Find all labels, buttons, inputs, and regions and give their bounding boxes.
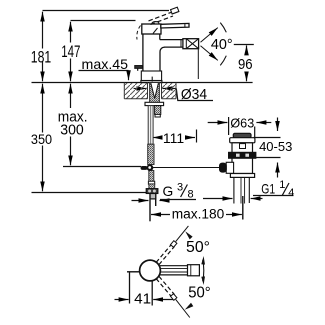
svg-text:max.45: max.45 <box>82 56 129 72</box>
handle block <box>142 24 161 34</box>
dimension 40-53 <box>277 118 279 132</box>
extension line max.300 bottom <box>63 166 141 168</box>
svg-text:40-53: 40-53 <box>259 139 292 154</box>
hose ferrule above nut <box>148 181 154 184</box>
drain bottom plate <box>230 174 254 178</box>
svg-text:300: 300 <box>60 122 84 138</box>
svg-text:50°: 50° <box>186 239 210 256</box>
hose nut G3/8 <box>146 189 158 194</box>
threaded shank in deck <box>150 83 160 103</box>
drain ball joint clevis <box>226 162 233 173</box>
drain plug cap <box>233 133 251 138</box>
dashed swing arc left of block <box>137 26 141 40</box>
angle arc arrowhead lower <box>185 303 194 310</box>
hose collar below ferrule <box>149 184 155 189</box>
svg-text:G1: G1 <box>261 182 275 197</box>
pop-up rod horizontal <box>153 167 220 169</box>
lever rod end cap <box>184 24 186 28</box>
dimension 111 horizontal <box>153 137 161 139</box>
drain overflow window <box>240 144 246 149</box>
spray arc upper stub <box>220 23 226 33</box>
base collar <box>141 71 161 81</box>
extension line 350 bottom <box>32 192 147 194</box>
arrowhead bottom of swing arc <box>201 276 205 285</box>
lift rod stub <box>137 68 139 71</box>
dimension 147 vertical line <box>70 22 72 43</box>
extension line below aerator mouth <box>197 49 199 79</box>
fraction slash G3/8 <box>181 185 188 198</box>
dimension 41 <box>115 299 129 301</box>
extension line 96 top <box>234 44 254 46</box>
hose braided below junction <box>149 171 154 182</box>
lever rod solid <box>161 23 189 28</box>
deck outline <box>124 83 176 99</box>
deck surface reference line <box>32 82 253 84</box>
drain body lower <box>232 158 253 173</box>
aerator box <box>183 39 199 49</box>
dashed lever cap upper <box>170 241 176 248</box>
drain clamp knob <box>220 163 227 172</box>
dashed lever cap lower <box>170 294 176 301</box>
spray angle 40 degrees <box>201 23 227 66</box>
svg-text:8: 8 <box>188 189 194 201</box>
svg-text:50°: 50° <box>188 285 211 302</box>
svg-text:3: 3 <box>177 182 183 194</box>
spray arc lower stub <box>220 56 226 66</box>
reference line top of raised lever (181) <box>43 10 170 12</box>
dimension 181 vertical line <box>42 12 44 49</box>
washer under deck <box>145 102 164 105</box>
top view: handle body circle <box>127 260 199 281</box>
top view left tick <box>127 271 140 273</box>
top view lever bar <box>160 265 188 267</box>
extension lines Ø63 <box>228 117 230 135</box>
extension line 41 left <box>129 273 131 304</box>
deck hole edges <box>148 83 162 99</box>
svg-text:41: 41 <box>134 291 151 308</box>
extension line max.180 left <box>149 194 151 222</box>
svg-text:181: 181 <box>31 47 51 66</box>
supply hose braided section <box>148 144 154 164</box>
leader Ø34 <box>176 89 213 101</box>
underline G1 1/4 <box>253 195 294 197</box>
faucet body right wall upper <box>159 34 161 40</box>
svg-text:G: G <box>163 184 174 199</box>
deck hatch left <box>124 83 147 99</box>
spout joint line <box>180 40 182 48</box>
underline G3/8 <box>160 199 196 201</box>
spray ray upper <box>201 28 218 43</box>
lever rod dashed raised position <box>149 12 174 24</box>
faucet body right wall lower with spout fillet <box>160 47 165 71</box>
dimension max.300 vertical line <box>70 84 72 108</box>
dimension G1 1/4 arrows <box>203 198 233 200</box>
arrowhead top of swing arc <box>201 256 205 265</box>
svg-text:max.180: max.180 <box>172 206 225 222</box>
svg-text:1: 1 <box>279 179 285 191</box>
dimension Ø34 arrows <box>134 88 147 90</box>
extension line max.180 right / drain axis <box>242 196 244 220</box>
top view lever cap <box>188 265 200 276</box>
mounting deck <box>124 83 176 99</box>
faucet body left wall <box>142 34 144 71</box>
svg-text:Ø34: Ø34 <box>181 87 207 103</box>
deck hatch right <box>162 83 177 99</box>
pop-up drain assembly <box>220 133 256 203</box>
dimension G3/8 arrows <box>132 200 149 202</box>
shank cone <box>151 83 159 99</box>
handle attachment bump <box>152 22 160 24</box>
angle arc arrowhead upper <box>185 231 192 239</box>
dimension Ø63 <box>208 122 228 124</box>
dimension max.45 leader <box>79 70 129 72</box>
extension line 111 right <box>196 130 198 143</box>
fraction slash G1 1/4 <box>282 183 289 195</box>
faucet side view <box>135 7 199 82</box>
drain body upper <box>232 143 253 154</box>
mounting stud nut <box>155 106 161 117</box>
angle leg lower <box>176 299 190 317</box>
junction clamp screw <box>141 166 148 170</box>
drain flange <box>230 138 255 143</box>
supply hose tube upper <box>148 106 155 185</box>
lift rod knob bar <box>135 66 143 69</box>
hose nipple G3/8 <box>150 194 156 199</box>
tailpipe <box>234 177 249 203</box>
pop-up rod inside collar <box>151 77 153 82</box>
dimension 96 vertical <box>246 45 248 53</box>
top view lever dashed at +50 <box>156 226 204 318</box>
svg-text:Ø63: Ø63 <box>230 116 254 130</box>
drain locknut <box>229 152 256 158</box>
extension line 41 right <box>151 281 153 306</box>
spray ray lower <box>201 46 218 61</box>
dimension 350 vertical line <box>42 84 44 133</box>
top view lever dashed at -50 <box>156 276 174 296</box>
extension line G3/8 right <box>155 194 157 207</box>
svg-text:40°: 40° <box>211 37 233 53</box>
svg-text:4: 4 <box>288 187 294 199</box>
aerator mousseur X <box>186 39 198 49</box>
dashed lever tip cap <box>171 7 179 14</box>
spout tube <box>160 39 183 41</box>
svg-text:147: 147 <box>61 42 80 61</box>
pop-up rod junction ball <box>141 164 154 171</box>
handle block notch <box>153 28 158 34</box>
svg-text:96: 96 <box>238 56 253 73</box>
reference line top of handle block (147) <box>71 20 136 22</box>
swing arc with arrows <box>203 260 204 281</box>
svg-text:111: 111 <box>163 130 184 146</box>
angle leg upper <box>176 226 189 242</box>
dimension max.180 <box>151 214 170 216</box>
svg-text:350: 350 <box>31 131 52 147</box>
base flange <box>141 81 162 83</box>
